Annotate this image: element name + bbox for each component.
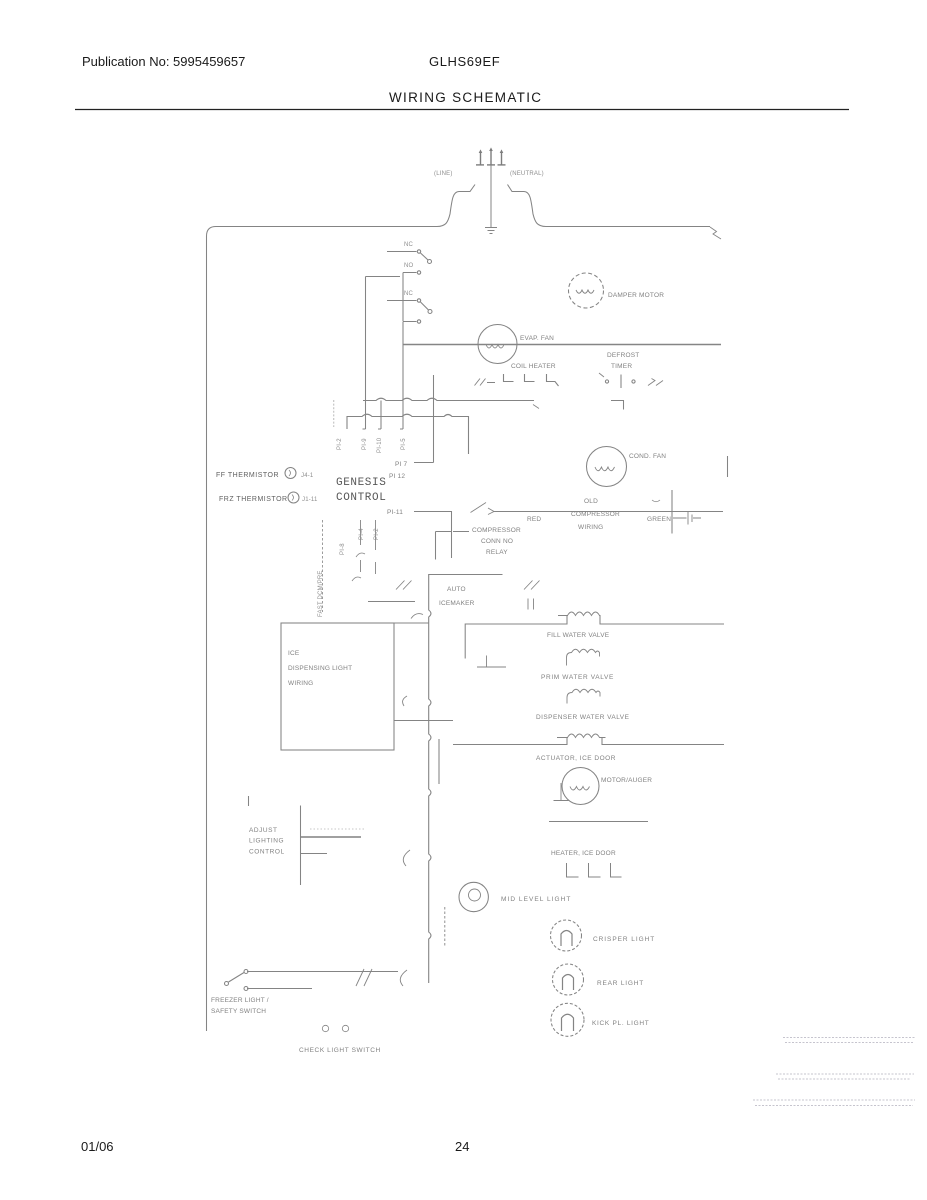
svg-text:PI-5: PI-5 — [401, 438, 407, 450]
svg-text:PI-2: PI-2 — [374, 528, 380, 540]
svg-text:CHECK LIGHT SWITCH: CHECK LIGHT SWITCH — [299, 1047, 381, 1054]
svg-text:COMPRESSOR: COMPRESSOR — [571, 511, 620, 518]
svg-text:ACTUATOR, ICE DOOR: ACTUATOR, ICE DOOR — [536, 755, 616, 762]
svg-text:MID LEVEL LIGHT: MID LEVEL LIGHT — [501, 896, 571, 903]
svg-text:GLHS69EF: GLHS69EF — [429, 54, 500, 69]
svg-text:MOTOR/AUGER: MOTOR/AUGER — [601, 777, 652, 784]
svg-text:DISPENSER WATER VALVE: DISPENSER WATER VALVE — [536, 714, 630, 721]
svg-text:24: 24 — [455, 1139, 469, 1154]
svg-text:WIRING SCHEMATIC: WIRING SCHEMATIC — [389, 90, 542, 105]
svg-text:Publication No: 5995459657: Publication No: 5995459657 — [82, 54, 245, 69]
svg-text:FF THERMISTOR: FF THERMISTOR — [216, 472, 279, 479]
svg-text:PI 7: PI 7 — [395, 461, 408, 468]
svg-text:FILL WATER VALVE: FILL WATER VALVE — [547, 632, 610, 639]
svg-text:COND. FAN: COND. FAN — [629, 453, 666, 460]
svg-text:J4-1: J4-1 — [301, 473, 314, 479]
svg-text:PI 12: PI 12 — [389, 473, 405, 480]
svg-text:SAFETY SWITCH: SAFETY SWITCH — [211, 1008, 266, 1015]
svg-text:PI-8: PI-8 — [340, 543, 346, 555]
svg-text:DEFROST: DEFROST — [607, 352, 639, 359]
svg-text:ADJUST: ADJUST — [249, 827, 278, 834]
svg-text:FREEZER LIGHT /: FREEZER LIGHT / — [211, 997, 269, 1004]
svg-text:01/06: 01/06 — [81, 1139, 114, 1154]
svg-text:FRZ THERMISTOR: FRZ THERMISTOR — [219, 496, 288, 503]
svg-text:(NEUTRAL): (NEUTRAL) — [510, 171, 544, 177]
svg-text:J1-11: J1-11 — [302, 497, 318, 503]
svg-text:TIMER: TIMER — [611, 363, 632, 370]
svg-text:HEATER, ICE DOOR: HEATER, ICE DOOR — [551, 850, 616, 857]
svg-text:PI-10: PI-10 — [377, 437, 383, 453]
svg-text:PRIM WATER VALVE: PRIM WATER VALVE — [541, 674, 614, 681]
svg-text:NO: NO — [404, 263, 414, 269]
svg-text:RED: RED — [527, 516, 541, 523]
svg-text:WIRING: WIRING — [578, 524, 603, 531]
svg-text:CONTROL: CONTROL — [336, 492, 386, 504]
svg-text:DISPENSING LIGHT: DISPENSING LIGHT — [288, 665, 352, 672]
svg-text:GREEN: GREEN — [647, 516, 671, 523]
svg-text:LIGHTING: LIGHTING — [249, 838, 284, 845]
svg-text:CONN NO: CONN NO — [481, 538, 513, 545]
svg-text:CRISPER LIGHT: CRISPER LIGHT — [593, 936, 655, 943]
svg-text:REAR LIGHT: REAR LIGHT — [597, 980, 644, 987]
svg-text:GENESIS: GENESIS — [336, 477, 386, 489]
svg-text:RELAY: RELAY — [486, 549, 508, 556]
svg-text:NC: NC — [404, 291, 414, 297]
svg-text:PI-2: PI-2 — [337, 438, 343, 450]
svg-text:KICK PL. LIGHT: KICK PL. LIGHT — [592, 1020, 649, 1027]
svg-text:FAST DCM/PRE: FAST DCM/PRE — [318, 570, 324, 617]
svg-text:CONTROL: CONTROL — [249, 849, 285, 856]
svg-text:DAMPER MOTOR: DAMPER MOTOR — [608, 292, 664, 299]
svg-text:OLD: OLD — [584, 498, 598, 505]
svg-text:ICE: ICE — [288, 650, 300, 657]
svg-text:EVAP. FAN: EVAP. FAN — [520, 335, 554, 342]
svg-text:WIRING: WIRING — [288, 680, 313, 687]
svg-text:ICEMAKER: ICEMAKER — [439, 600, 475, 607]
svg-text:PI-9: PI-9 — [362, 438, 368, 450]
svg-text:PI-11: PI-11 — [387, 509, 403, 516]
svg-text:COMPRESSOR: COMPRESSOR — [472, 527, 521, 534]
svg-text:NC: NC — [404, 242, 414, 248]
svg-text:COIL HEATER: COIL HEATER — [511, 363, 556, 370]
svg-text:(LINE): (LINE) — [434, 171, 453, 177]
svg-text:PI-4: PI-4 — [359, 528, 365, 540]
svg-text:AUTO: AUTO — [447, 586, 466, 593]
